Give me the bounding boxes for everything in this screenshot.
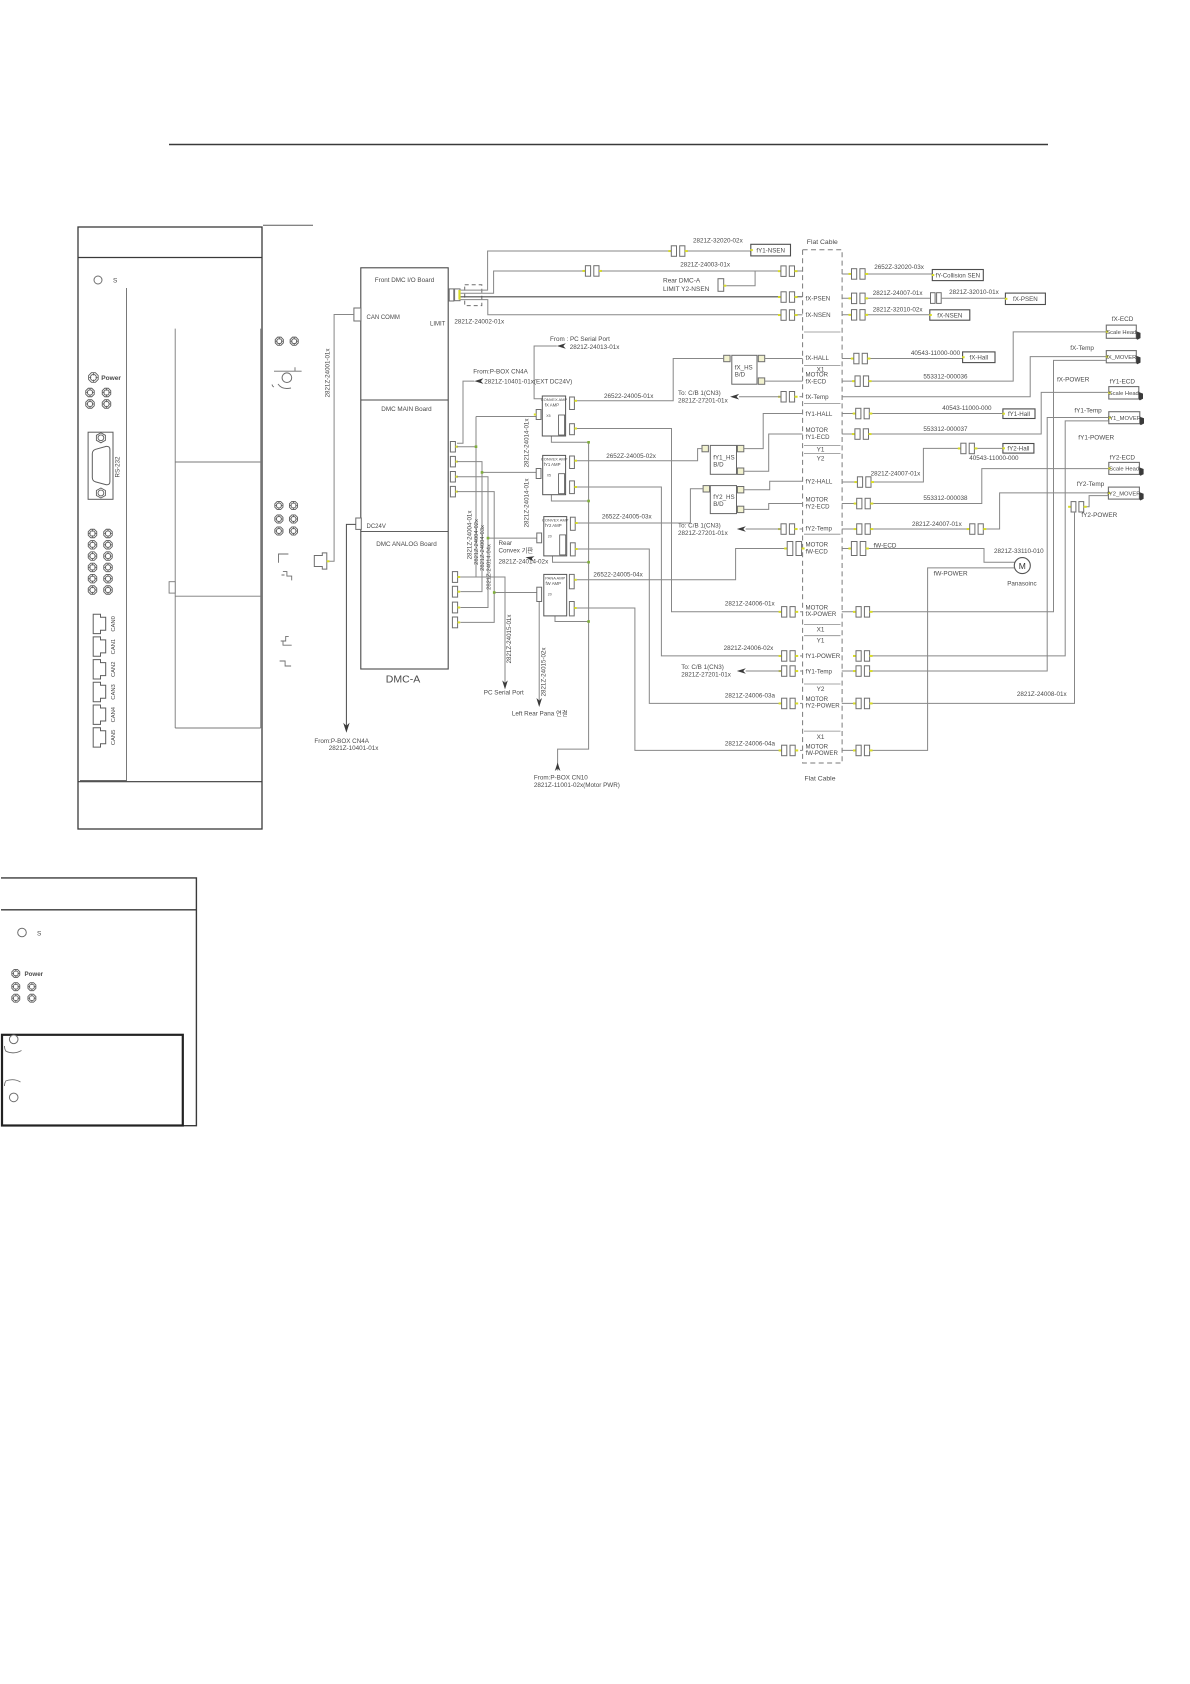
svg-text:CONVEX AMP: CONVEX AMP	[542, 518, 569, 523]
connector pair fX-PSEN left	[778, 292, 798, 303]
svg-text:fX-Temp: fX-Temp	[1070, 345, 1094, 352]
svg-text:fY1-HALL: fY1-HALL	[806, 411, 833, 418]
svg-text:fX-POWER: fX-POWER	[806, 611, 837, 618]
stub fX AMP PWR	[551, 436, 588, 442]
svg-text:fY1-Hall: fY1-Hall	[1008, 411, 1030, 418]
svg-text:fY1-ECD: fY1-ECD	[1110, 379, 1136, 386]
CAN connector CAN1	[93, 637, 106, 656]
svg-text:2821Z-24014-01x: 2821Z-24014-01x	[524, 478, 531, 528]
svg-text:From:P-BOX CN4A: From:P-BOX CN4A	[314, 738, 369, 745]
wire fW-ECD	[842, 549, 1015, 563]
connector pair MOTOR fY2-POWER	[779, 698, 799, 709]
arrow down P-BOX CN4A	[343, 723, 349, 733]
svg-text:fX AMP: fX AMP	[545, 403, 559, 408]
CAN connector CAN4	[93, 705, 106, 724]
svg-text:Y1: Y1	[817, 638, 825, 645]
DMC connector lower 4	[452, 617, 457, 628]
wire 2652Z-24005-03x	[578, 489, 703, 523]
svg-text:2821Z-24006-01x: 2821Z-24006-01x	[725, 600, 776, 607]
svg-text:fY1-ECD: fY1-ECD	[806, 434, 831, 441]
fY1 AMP	[543, 455, 566, 494]
connector pair fX-NSEN right	[849, 310, 869, 321]
svg-text:B/D: B/D	[735, 371, 746, 378]
connector pair fX-PSEN right	[849, 293, 869, 304]
wire DC24V to P-BOX CN4A	[346, 524, 355, 727]
wire fY1-NSEN run	[461, 251, 672, 290]
fX_MOVER	[1106, 351, 1141, 365]
fY1_HS right pin 2	[737, 468, 743, 474]
svg-text:PC Serial Port: PC Serial Port	[484, 690, 524, 697]
svg-text:2821Z-10401-01x: 2821Z-10401-01x	[329, 745, 380, 752]
svg-text:CAN5: CAN5	[111, 730, 117, 745]
power screw	[89, 373, 99, 383]
svg-text:CAN2: CAN2	[111, 662, 117, 677]
svg-text:2652Z-24005-03x: 2652Z-24005-03x	[602, 513, 653, 520]
connector pair fY2-Temp	[778, 524, 798, 535]
front panel bottom divider	[78, 781, 262, 783]
panel2 circle top	[9, 1035, 18, 1044]
svg-text:fW AMP: fW AMP	[545, 581, 561, 586]
connector pair fW-POWER right	[853, 745, 873, 756]
svg-text:2821Z-24003-01x: 2821Z-24003-01x	[680, 262, 731, 269]
terminal fX-NSEN	[929, 310, 970, 320]
connector pair fX-PSEN mid	[931, 293, 936, 304]
svg-text:S: S	[113, 278, 118, 285]
status LED S	[94, 276, 102, 284]
terminal fY1-Hall	[1002, 409, 1035, 419]
wire fX-HALL feed	[765, 358, 803, 360]
wire fX-POWER	[842, 360, 1107, 611]
svg-text:553312-000037: 553312-000037	[923, 426, 968, 433]
side bracket	[279, 554, 289, 563]
svg-text:2821Z-32020-02x: 2821Z-32020-02x	[693, 238, 744, 245]
fY1_MOVER	[1108, 412, 1144, 425]
wire fY2-Temp right	[842, 493, 1109, 529]
svg-text:fY1-NSEN: fY1-NSEN	[756, 247, 785, 254]
CAN connector CAN3	[93, 682, 106, 701]
connector pair fX-Temp	[778, 392, 798, 403]
wire 26522-24005-04x	[577, 549, 787, 580]
svg-text:X5: X5	[547, 473, 551, 477]
wire fY2-HALL right	[842, 448, 1003, 482]
fY1 AMP left conn	[536, 469, 541, 479]
svg-text:fW-POWER: fW-POWER	[806, 750, 839, 757]
fY2_HS right pin 1	[737, 487, 743, 493]
panel inner tab	[169, 582, 175, 593]
svg-text:553312-000038: 553312-000038	[923, 495, 968, 502]
svg-text:fY2-ECD: fY2-ECD	[1110, 455, 1136, 462]
wire fY2-POWER right	[842, 512, 1075, 703]
svg-text:2652Z-32020-03x: 2652Z-32020-03x	[874, 264, 925, 271]
wire fX-NSEN right	[842, 314, 930, 316]
svg-text:LIMIT Y2-NSEN: LIMIT Y2-NSEN	[663, 286, 710, 293]
screw	[104, 552, 113, 561]
wire CAN COMM to plug	[328, 315, 354, 562]
side screw	[275, 527, 283, 535]
svg-text:Power: Power	[25, 971, 44, 978]
wire fY-Collision	[842, 273, 933, 275]
svg-text:2821Z-24014-02x: 2821Z-24014-02x	[499, 559, 550, 566]
svg-text:fW-ECD: fW-ECD	[874, 543, 897, 550]
fW AMP left conn	[537, 587, 542, 601]
svg-text:fY2 AMP: fY2 AMP	[545, 523, 562, 528]
side step shape	[282, 572, 292, 581]
svg-text:CAN0: CAN0	[111, 616, 117, 631]
screw	[104, 541, 113, 550]
DMC connector lower 3	[452, 602, 457, 613]
svg-text:fX-HALL: fX-HALL	[806, 355, 830, 362]
svg-text:DMC MAIN Board: DMC MAIN Board	[381, 406, 432, 413]
wire PC serial from fX AMP	[534, 346, 557, 399]
connector pair fY2-HALL right	[854, 477, 874, 488]
svg-text:fY2_MOVER: fY2_MOVER	[1107, 491, 1140, 497]
fY2 AMP left conn	[537, 533, 542, 543]
panel2 curve top	[5, 1046, 22, 1053]
svg-text:LIMIT: LIMIT	[430, 322, 446, 328]
connector pair 24003 at cable	[778, 266, 798, 277]
svg-text:2821Z-32010-02x: 2821Z-32010-02x	[873, 307, 924, 314]
arrow down Left Rear Pana	[536, 698, 542, 707]
fY1 AMP right conn top	[570, 456, 575, 469]
connector pair fY2-Temp r2	[967, 524, 987, 535]
connector pair 24003 mid	[582, 266, 602, 277]
fX_HS right pin 2	[758, 378, 764, 384]
screw	[86, 400, 95, 409]
wire 26522-24005-01x	[577, 359, 724, 401]
svg-text:2821Z-24014-04x: 2821Z-24014-04x	[487, 544, 493, 590]
connector pair fY2-ECD	[854, 498, 874, 509]
svg-text:553312-000036: 553312-000036	[923, 373, 968, 380]
panel2 divider	[1, 909, 196, 911]
svg-text:2821Z-24004-03x: 2821Z-24004-03x	[480, 525, 486, 571]
CAN connector CAN5	[93, 728, 106, 747]
DMC top connector	[449, 289, 454, 301]
svg-text:fY1 AMP: fY1 AMP	[544, 462, 561, 467]
arrow down PC Serial	[502, 680, 508, 689]
svg-text:DMC-A: DMC-A	[386, 674, 420, 686]
svg-text:B/D: B/D	[713, 501, 724, 508]
svg-text:Rear: Rear	[499, 540, 513, 547]
screw	[104, 586, 113, 595]
junction	[587, 620, 590, 623]
fY2_MOVER	[1107, 487, 1143, 500]
wire fY2-POWER upper	[1085, 496, 1109, 507]
panel2 screw	[12, 994, 20, 1002]
stub fX-POWER edge	[800, 611, 803, 613]
wire fY1-POWER right	[872, 421, 1108, 656]
front panel outline	[78, 227, 262, 829]
fY2_HS right pin 2	[737, 506, 743, 512]
DMC board divider 2	[361, 530, 448, 532]
side screw	[289, 501, 297, 509]
DMC connector upper 4	[450, 486, 455, 497]
connector pair MOTOR fW-POWER	[779, 745, 799, 756]
svg-text:2821Z-24004-01x: 2821Z-24004-01x	[467, 510, 474, 560]
fY2 AMP right conn bottom	[570, 543, 575, 556]
svg-text:40543-11000-000: 40543-11000-000	[969, 455, 1019, 462]
bus 2821Z-24004-03x	[457, 477, 537, 608]
screw	[88, 541, 97, 550]
wire pair to fY1-NSEN box	[688, 250, 751, 252]
svg-text:Power: Power	[101, 375, 121, 382]
svg-text:2821Z-24006-02x: 2821Z-24006-02x	[724, 645, 775, 652]
fY1_HS B/D	[710, 445, 736, 474]
svg-text:2821Z-27201-01x: 2821Z-27201-01x	[678, 530, 729, 537]
svg-text:To: C/B 1(CN3): To: C/B 1(CN3)	[681, 664, 724, 671]
motor M	[1014, 558, 1030, 574]
side screw	[275, 337, 283, 345]
svg-text:fX-ECD: fX-ECD	[806, 378, 827, 385]
screw	[88, 529, 97, 538]
screw	[104, 574, 113, 583]
stub fY2 AMP PWR	[553, 556, 589, 562]
screw	[86, 388, 95, 397]
wire MOTOR fX-ECD feed	[765, 380, 803, 382]
svg-text:2821Z-32010-01x: 2821Z-32010-01x	[949, 289, 1000, 296]
svg-text:40543-11000-000: 40543-11000-000	[911, 350, 961, 357]
svg-text:fY1-POWER: fY1-POWER	[806, 653, 841, 660]
svg-text:Convex 기판: Convex 기판	[499, 546, 534, 555]
wire fX-PSEN run	[461, 296, 781, 298]
svg-text:2821Z-24015-02x: 2821Z-24015-02x	[540, 647, 547, 697]
connector Rear DMC-A	[718, 279, 724, 292]
svg-text:2821Z-27201-01x: 2821Z-27201-01x	[678, 397, 729, 404]
svg-text:CONVEX AMP: CONVEX AMP	[541, 397, 568, 402]
svg-text:B/D: B/D	[713, 461, 724, 468]
RS-232 connector body	[88, 432, 113, 499]
svg-text:RS-232: RS-232	[115, 456, 122, 478]
stub fY2-Temp edge	[800, 528, 803, 530]
svg-text:fX-Hall: fX-Hall	[970, 355, 989, 362]
DMC connector lower 1	[452, 572, 457, 583]
connector pair fY2-POWER right	[853, 698, 873, 709]
stub fY1-POWER edge	[800, 655, 803, 657]
CAN connector CAN2	[93, 660, 106, 679]
fX_HS right pin 1	[758, 355, 764, 361]
junction	[487, 537, 490, 540]
svg-text:2821Z-24014-01x: 2821Z-24014-01x	[524, 418, 531, 468]
side screw	[289, 527, 297, 535]
svg-text:Scale Head: Scale Head	[1109, 391, 1139, 397]
svg-text:fY-Collision SEN: fY-Collision SEN	[936, 272, 980, 279]
wire 24003 run	[461, 271, 586, 293]
svg-text:2821Z-33110-010: 2821Z-33110-010	[994, 548, 1044, 555]
svg-text:Panasoinc: Panasoinc	[1007, 581, 1036, 588]
DMC top connector 2	[455, 289, 460, 301]
fW AMP right conn bottom	[569, 602, 574, 616]
side shape circle	[282, 373, 292, 383]
arrow From PC Serial Port	[557, 343, 566, 349]
panel2 outline	[1, 878, 196, 1126]
svg-text:Scale Head: Scale Head	[1109, 467, 1139, 473]
svg-text:fX-PSEN: fX-PSEN	[1013, 296, 1038, 303]
stub fY1 AMP PWR	[551, 495, 588, 501]
svg-text:From:P-BOX CN4A: From:P-BOX CN4A	[473, 369, 528, 376]
wire fX-ECD	[842, 332, 1107, 381]
arrow Rear Convex	[526, 556, 535, 561]
connector pair fY2-Hall mid	[958, 443, 978, 454]
svg-text:CAN4: CAN4	[111, 706, 117, 722]
screw	[104, 529, 113, 538]
fW AMP right conn top	[569, 574, 574, 588]
screw	[102, 388, 111, 397]
fY1_HS left pin	[702, 445, 708, 451]
wire fY1-Temp right	[842, 418, 1109, 672]
side step shape	[281, 636, 292, 645]
svg-text:X5: X5	[546, 414, 550, 418]
wire fX-PSEN into cable	[797, 296, 802, 298]
wire fX-Temp right	[842, 357, 1107, 397]
svg-text:2821Z-24007-01x: 2821Z-24007-01x	[873, 290, 924, 297]
panel2 curve bottom	[5, 1080, 21, 1086]
arrow To CB fX-Temp	[730, 394, 739, 400]
svg-text:40543-11000-000: 40543-11000-000	[942, 405, 992, 412]
dashed connector box	[465, 285, 482, 306]
side screw	[289, 515, 297, 523]
screw	[102, 400, 111, 409]
terminal fY1-NSEN	[750, 244, 790, 256]
screw	[88, 586, 97, 595]
svg-text:Flat Cable: Flat Cable	[805, 776, 836, 783]
connector pair fY1-POWER right	[853, 651, 873, 662]
fY2 AMP	[544, 517, 567, 556]
connector pair fX-POWER right	[853, 607, 873, 618]
panel2 screw	[12, 983, 20, 991]
svg-text:fX_HS: fX_HS	[735, 364, 753, 371]
connector pair fY1-ECD	[852, 429, 872, 440]
arrow From P-BOX CN4A	[474, 378, 483, 384]
svg-text:Scale Head: Scale Head	[1106, 330, 1136, 336]
fW AMP	[544, 574, 567, 616]
svg-text:2821Z-24001-01x: 2821Z-24001-01x	[325, 348, 332, 398]
svg-text:M: M	[1019, 561, 1026, 571]
panel top-right stub line	[263, 224, 313, 226]
fX_HS B/D	[732, 355, 757, 384]
wire fY1-POWER feed	[577, 487, 782, 656]
svg-text:From : PC Serial Port: From : PC Serial Port	[550, 336, 610, 343]
CAN connector CAN0	[93, 614, 106, 633]
wire MOTOR fW-POWER feed	[577, 608, 782, 750]
svg-text:Rear DMC-A: Rear DMC-A	[663, 277, 701, 284]
connector pair fY-Collision	[849, 269, 869, 280]
wire MOTOR fX-POWER feed	[577, 429, 782, 612]
svg-text:Left Rear Pana 연결: Left Rear Pana 연결	[512, 709, 568, 718]
RS-232 D-sub	[92, 446, 110, 484]
stub fW AMP PWR	[555, 616, 589, 622]
arrow up P-BOX CN10	[555, 763, 561, 772]
junction	[587, 441, 590, 444]
connector pair MOTOR fW-ECD left	[784, 542, 804, 556]
wire fY2-ECD	[842, 469, 1109, 504]
wire fY2-Temp to CB	[746, 528, 781, 530]
junction	[587, 561, 590, 564]
panel2 screw	[28, 983, 36, 991]
panel inner frame	[175, 329, 261, 728]
stub fW-POWER edge	[800, 749, 803, 751]
screw	[88, 574, 97, 583]
svg-text:fY2-Temp: fY2-Temp	[806, 526, 833, 533]
connector pair fX-ECD	[852, 376, 872, 387]
svg-text:fX-ECD: fX-ECD	[1112, 316, 1134, 323]
screw	[88, 563, 97, 572]
svg-text:fY1-Temp: fY1-Temp	[806, 668, 833, 675]
wire 2652Z-24005-02x	[577, 449, 702, 461]
svg-text:Front DMC I/O Board: Front DMC I/O Board	[375, 277, 435, 284]
svg-text:CONVEX AMP: CONVEX AMP	[541, 456, 568, 461]
connector pair fY1-POWER	[779, 651, 799, 662]
svg-text:fY2-POWER: fY2-POWER	[806, 703, 841, 710]
fX AMP right conn bottom	[570, 424, 575, 435]
svg-text:fX-PSEN: fX-PSEN	[806, 296, 831, 303]
panel2 inner box	[2, 1035, 183, 1126]
wire fX-HALL right	[842, 358, 963, 360]
svg-text:2821Z-24007-01x: 2821Z-24007-01x	[912, 521, 963, 528]
svg-text:From:P-BOX CN10: From:P-BOX CN10	[534, 774, 588, 781]
fY2_HS left pin	[703, 486, 709, 492]
connector pair MOTOR fX-POWER	[779, 607, 799, 618]
wire fY2-HALL feed	[744, 481, 803, 489]
side shape arcs	[272, 367, 295, 388]
wire fY1-HALL feed	[744, 414, 803, 449]
Scale Head fY1-ECD	[1108, 387, 1143, 401]
svg-text:fY2-Temp: fY2-Temp	[1077, 481, 1105, 488]
junction	[481, 471, 484, 474]
wire fY1-ECD	[842, 392, 1109, 434]
connector pair fY2-Temp r1	[854, 524, 874, 535]
connector pair fY1-HALL right	[853, 408, 873, 419]
connector pair fX-HALL right	[851, 353, 871, 364]
svg-text:fX-NSEN: fX-NSEN	[937, 312, 962, 319]
svg-text:2821Z-27201-01x: 2821Z-27201-01x	[681, 672, 732, 679]
wire fY1-Temp to CB	[746, 670, 782, 672]
bus 2821Z-24014-04x	[457, 492, 537, 623]
connector pair fW-ECD right	[848, 542, 868, 556]
svg-text:fY1_MOVER: fY1_MOVER	[1108, 416, 1141, 422]
connector pair fY1-Temp	[779, 666, 799, 677]
flat cable group separators	[804, 332, 841, 731]
svg-text:CAN3: CAN3	[111, 684, 117, 699]
DMC board divider 1	[361, 399, 448, 401]
header rule	[169, 144, 1048, 146]
panel inner face line	[80, 288, 127, 781]
svg-text:2821Z-24015-01x: 2821Z-24015-01x	[506, 614, 513, 664]
svg-text:fX-NSEN: fX-NSEN	[806, 312, 831, 319]
svg-text:DC24V: DC24V	[367, 524, 386, 530]
DMC connector upper 2	[450, 456, 455, 467]
svg-text:fX-Temp: fX-Temp	[806, 394, 830, 401]
fX AMP	[542, 396, 565, 436]
terminal fY2-Hall	[1002, 444, 1034, 454]
svg-text:X1: X1	[817, 366, 825, 373]
CAN plug connector	[314, 553, 327, 569]
wire MOTOR fY2-POWER feed	[578, 549, 782, 703]
svg-text:2821Z-11001-02x(Motor PWR): 2821Z-11001-02x(Motor PWR)	[534, 782, 620, 789]
terminal fX-PSEN	[1005, 293, 1046, 304]
fX AMP right conn top	[570, 397, 575, 410]
panel2 LED S	[18, 928, 27, 937]
svg-text:Y1: Y1	[817, 446, 825, 453]
wire 24003 into cable	[797, 270, 802, 272]
stub fY1-Temp edge	[800, 670, 803, 672]
wire EXT DC24V	[457, 381, 474, 443]
svg-text:DMC ANALOG Board: DMC ANALOG Board	[376, 541, 437, 548]
screw	[88, 552, 97, 561]
wire fX-PSEN right	[842, 297, 1006, 299]
RS-232 screw top	[96, 433, 105, 443]
wire fY1-HALL right	[842, 413, 1003, 415]
side shape line	[274, 370, 302, 372]
bus Motor PWR	[558, 442, 589, 770]
